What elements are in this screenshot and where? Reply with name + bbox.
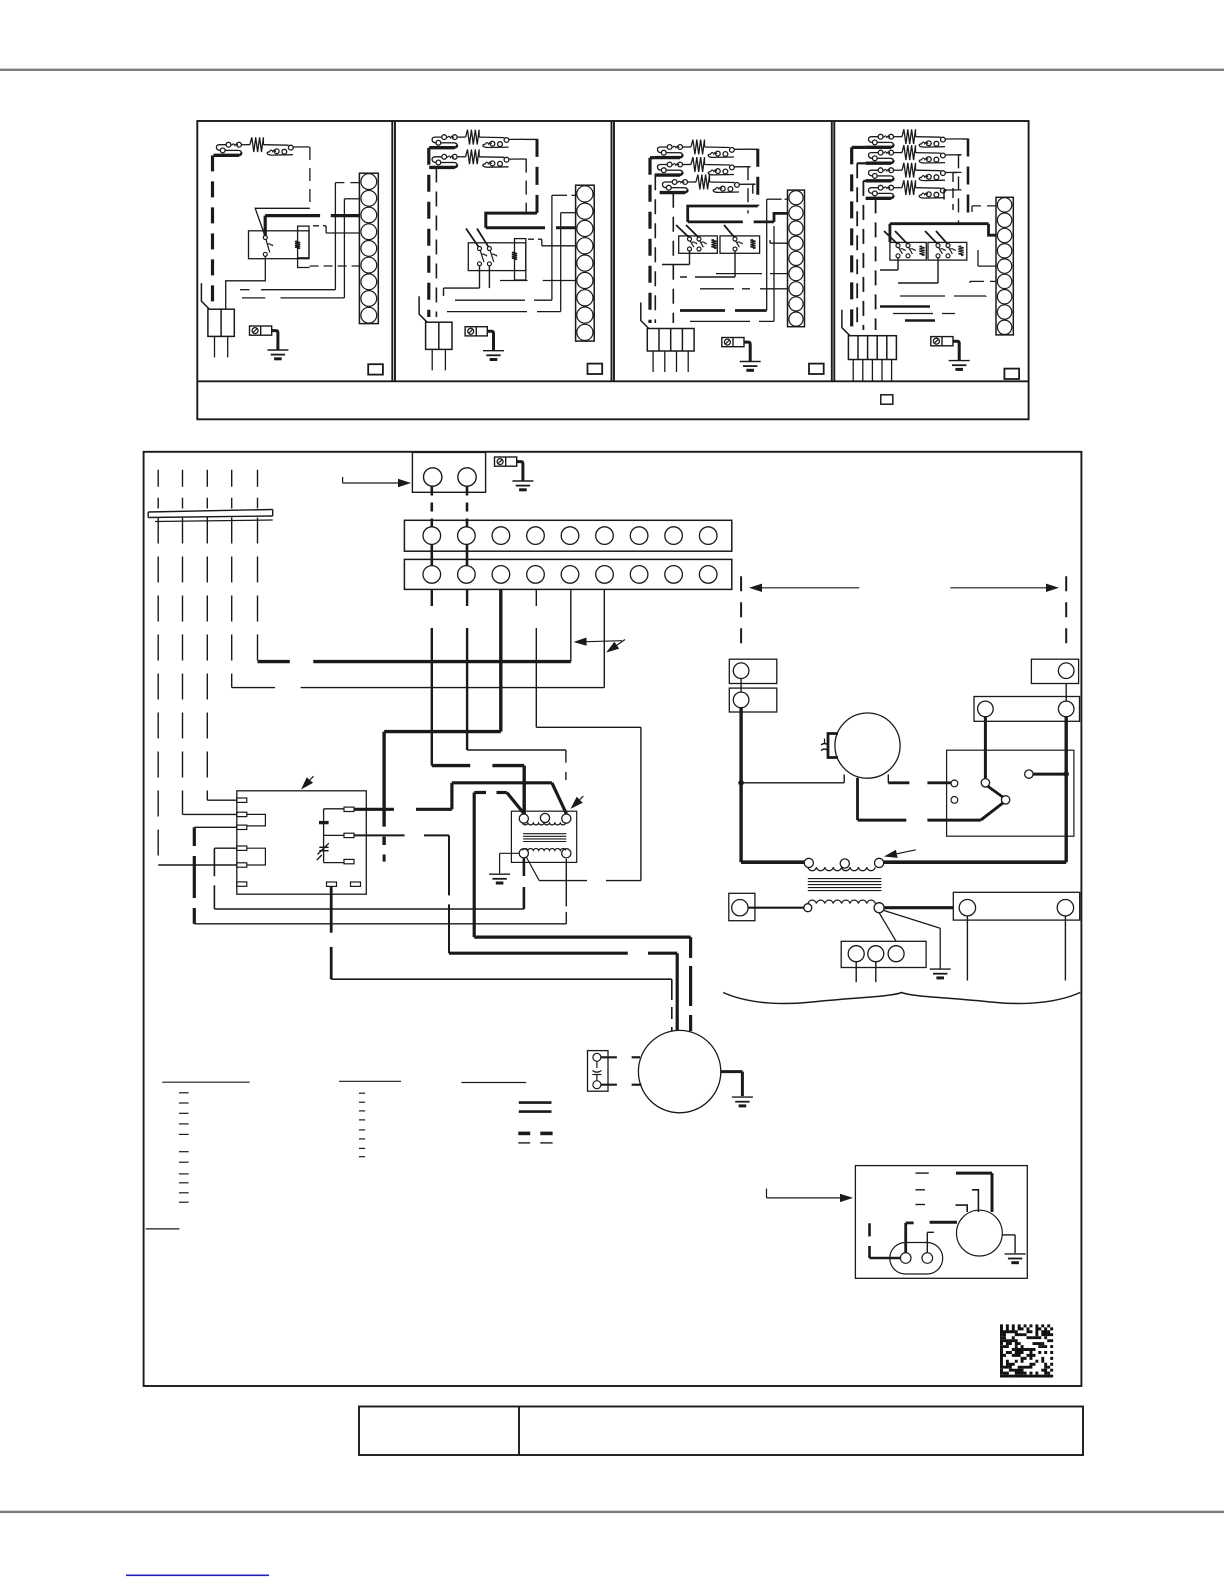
terminal row2 circle 6	[596, 566, 614, 584]
terminal row2 circle 4	[527, 566, 545, 584]
24V transformer box	[511, 811, 576, 862]
integrated control board	[237, 791, 366, 894]
panel3 relay feed diagonals	[676, 225, 689, 237]
terminal row1 circle 5	[561, 527, 579, 545]
panel4 heater element 3	[866, 179, 891, 182]
limit contacts left	[951, 780, 958, 787]
wavy break brace	[723, 993, 1080, 1004]
panel1 thick wire relay to terminal 3	[264, 216, 267, 236]
panel4 wire to terminal 6	[970, 280, 996, 282]
panel3 element leads right	[751, 148, 758, 150]
limit pivot and blade	[981, 779, 989, 787]
legend column 3 header line	[462, 1082, 527, 1084]
left field dashed line	[740, 576, 742, 653]
panel4 heater element 1	[866, 146, 891, 149]
terminal row1 circle 7	[630, 527, 648, 545]
limit right contact	[1025, 770, 1033, 778]
igniter bus d	[449, 952, 628, 955]
terminal row1 circle 9	[699, 527, 717, 545]
panel2 right drop wire 2	[525, 159, 527, 214]
field wire 3 to board pin1	[206, 518, 208, 801]
secondary taps slanted	[879, 913, 896, 942]
board bottom pin 1	[327, 882, 337, 886]
panel4 sequencer relay box A	[890, 242, 926, 260]
wire between left blocks	[740, 679, 742, 693]
main transformer laminations	[808, 878, 882, 880]
arrow to interlock box	[766, 1189, 768, 1198]
legend left margin line	[146, 1228, 180, 1230]
panels bottom strip line	[197, 380, 1028, 382]
panel3 heater element 3	[660, 191, 685, 194]
panel3 wire terminal 2 drop	[773, 226, 775, 321]
panel1 wire to terminal 1	[335, 182, 359, 184]
panel2 plug connector	[426, 322, 452, 349]
panel2 sequencer relay box	[468, 243, 526, 271]
board left pin 5	[237, 863, 247, 867]
panel2 polarized connector with ground	[465, 327, 487, 336]
junction dot	[739, 781, 743, 785]
panel3 terminal strip	[788, 190, 805, 327]
hot tap to igniter bus c	[474, 791, 486, 794]
wires below right block	[966, 916, 968, 981]
terminal row1 circle 2	[458, 527, 476, 545]
field wire 1 to board pin5	[157, 518, 159, 866]
arrow to main transformer	[897, 850, 916, 854]
terminal row1 circle 1	[423, 527, 441, 545]
legend line sample solid 2	[519, 1110, 552, 1113]
wire pin3 thick down to 24v hot bus	[194, 826, 237, 828]
panel2 relay feeds	[466, 229, 479, 247]
interlock dashes	[916, 1172, 929, 1174]
panel2 right drop wire 1	[536, 139, 539, 213]
interlock transformer circle	[957, 1210, 1003, 1256]
blower motor circle	[835, 713, 900, 778]
field wiring left arrow	[762, 587, 859, 589]
panel2 terminal strip	[576, 185, 595, 341]
board left pin 4	[237, 846, 247, 850]
wire board bottom pin to igniter thin bus	[330, 887, 333, 933]
data matrix code	[1000, 1324, 1053, 1377]
bottom rule	[0, 1511, 1224, 1513]
motor hot lead dashed	[887, 775, 889, 783]
board right pin 2	[344, 833, 354, 837]
interlock oval receptacle	[890, 1243, 943, 1275]
24V transformer secondary coil	[523, 849, 566, 851]
interlock thick feed	[930, 1221, 957, 1224]
limit switch box	[947, 750, 1074, 836]
wire board right pin2 to igniter bus	[354, 834, 405, 836]
main transformer primary terminals	[804, 858, 813, 867]
board right pin 3	[344, 859, 354, 863]
revision table	[359, 1407, 1083, 1456]
24v common bus to secondary left	[214, 908, 524, 910]
wire terminal c1 down to primary-left bus	[431, 589, 433, 606]
panel4 right drop wires	[967, 139, 970, 219]
panel2 relay lower wires down	[479, 266, 481, 288]
interlock step wires	[972, 1190, 979, 1212]
panel1 wire to terminal 4	[326, 232, 359, 234]
panel3 relay lower wires	[689, 251, 691, 265]
terminal row2 circle 3	[492, 566, 510, 584]
top rule	[0, 69, 1224, 71]
terminal row1 circle 3	[492, 527, 510, 545]
panel4 wire to terminal 1	[972, 205, 996, 207]
terminal row1 circle 6	[596, 527, 614, 545]
board jumper bracket 1	[247, 814, 266, 826]
panel divider 1	[391, 121, 393, 381]
flame sensor connector block	[588, 1051, 609, 1092]
blower door interlock box	[855, 1166, 1027, 1279]
thick L2 wire down	[1064, 717, 1067, 863]
arrow to control board	[310, 776, 314, 780]
board left pin 6	[237, 882, 247, 886]
disconnect block left 1	[729, 659, 777, 683]
legend column 1 header line	[162, 1081, 250, 1083]
panel1 sequencer relay box	[249, 231, 310, 259]
wire board right pin1 to primary right	[354, 808, 394, 811]
panel4 polarized connector with ground	[931, 337, 953, 346]
panel4 element leads right	[962, 138, 969, 140]
panel divider 3	[831, 121, 833, 381]
wire terminal c2 down to primary-right	[466, 589, 468, 606]
panel3 thick lower run	[680, 309, 725, 312]
field wires top dashed	[157, 470, 159, 509]
board left pin 1	[237, 798, 247, 802]
panel1 heater element HTR1	[214, 154, 239, 157]
legend column 1 dashes	[179, 1092, 189, 1094]
wire terminal c3 thick down to relay pin	[499, 589, 502, 731]
field wire 2 to board pin2	[182, 518, 184, 815]
interlock receptacle wires	[904, 1223, 907, 1253]
field wiring right arrow	[950, 587, 1046, 589]
flame sensor leads	[601, 1056, 617, 1058]
panel4 long horizontal runs	[900, 295, 986, 297]
polarized connector top with ground	[495, 457, 517, 466]
panel3 heater element 1	[655, 156, 680, 159]
panel4 left wires to plug	[852, 146, 866, 149]
fuse block right wide	[974, 697, 1080, 722]
igniter motor circle	[638, 1030, 720, 1112]
wires below 3-circle block	[855, 962, 857, 983]
panel4 thick bus to terminals	[890, 222, 989, 225]
board relay bus line	[323, 809, 325, 863]
main transformer secondary coil	[808, 900, 875, 903]
legend line sample dashed thick	[518, 1132, 530, 1136]
panel2 element2 lead to right drop	[525, 158, 526, 160]
panel3 sequencer relay box A	[679, 236, 718, 253]
panel4 wire to terminal 5	[978, 265, 996, 267]
terminal strip row 2	[404, 559, 731, 589]
24V transformer secondary terminals	[519, 849, 528, 858]
main transformer secondary terminals	[804, 904, 812, 912]
board one-shot mark	[319, 821, 329, 824]
panel2 wire to terminal 2	[561, 212, 576, 214]
disconnect block left 2	[729, 688, 777, 712]
panel1 relay coil box	[298, 226, 309, 258]
terminal strip row 1	[404, 520, 731, 551]
terminal row2 circle 1	[423, 566, 441, 584]
panel2 wire to terminal 4	[542, 245, 576, 247]
right wide block 2-circle	[953, 892, 1079, 920]
panel2 element1 lead to right drop	[525, 138, 537, 140]
24V transformer laminations	[523, 833, 566, 835]
legend column 2 dashes	[359, 1092, 365, 1094]
field wire 5 thick thermostat run	[257, 518, 259, 662]
disconnect block right top	[1031, 659, 1078, 683]
cable clamp	[148, 510, 273, 513]
panel divider 2	[611, 121, 613, 381]
heat kit panels outer box	[197, 121, 1028, 419]
panel3 wire to terminal 6	[716, 273, 762, 275]
panel4 heater element 2	[866, 161, 891, 164]
legend line sample dashed thin	[518, 1142, 530, 1144]
wire between right blocks	[1065, 684, 1067, 702]
panel4 id rect	[1004, 369, 1019, 379]
panel2 wire to terminal 1	[552, 194, 567, 196]
panel2 relay coil box	[515, 239, 526, 280]
panel3 left wires to plug	[650, 156, 655, 159]
wire terminal c6 down	[603, 589, 605, 687]
panel3 sequencer relay box B	[720, 236, 760, 253]
thick bus y765 to transformer primary left	[432, 764, 470, 767]
board bottom pin 2	[351, 882, 361, 886]
door interlock switch block	[412, 452, 485, 492]
panel1 wire to terminal 2	[344, 198, 359, 200]
main diagram box	[144, 452, 1082, 1386]
panel2 second left wire to plug	[435, 168, 437, 318]
panel3 wire to terminal 7	[700, 288, 750, 290]
panel1 plug connector	[208, 309, 234, 336]
terminal row2 circle 7	[630, 566, 648, 584]
legend column 2 header line	[339, 1080, 401, 1082]
24V secondary ground	[500, 852, 520, 854]
footer link underline	[126, 1575, 269, 1577]
arrow to door switch	[342, 477, 344, 483]
panel1 polarized connector with ground	[250, 326, 272, 335]
board gap mark	[319, 846, 328, 848]
interlock thick corner wire	[956, 1172, 992, 1175]
wire terminal c4 down to 24v common loop	[535, 589, 537, 606]
motor neutral lead	[843, 775, 845, 783]
panel3 plug connector	[647, 329, 694, 352]
igniter ground	[721, 1070, 743, 1073]
panel2 heater element 1	[429, 146, 454, 149]
panel2 id rect	[588, 364, 603, 374]
board jumper bracket 2	[247, 848, 266, 865]
small rect in bottom strip	[881, 395, 893, 404]
24v hot bus to secondary right	[194, 923, 566, 925]
blade lower bus thick	[981, 803, 1004, 821]
terminal row1 circle 4	[527, 527, 545, 545]
panel2 wire to terminal 6	[500, 280, 528, 282]
panel3 wire to terminal 4	[770, 242, 788, 244]
panel4 relay feed diagonals	[884, 231, 897, 244]
panel4 terminal strip	[996, 197, 1013, 335]
panel3 wire to terminal 1	[767, 198, 782, 200]
board left pin 3	[237, 825, 247, 829]
panel3 heater element 2	[655, 173, 680, 176]
main transformer primary coil	[808, 867, 875, 870]
panel2 lower horizontal runs	[444, 287, 480, 289]
interlock ground	[1002, 1234, 1015, 1236]
panel2 heater element 2	[429, 166, 454, 169]
motor run capacitor	[828, 734, 838, 758]
wire door switch 2 to terminals	[466, 487, 469, 528]
wire door switch 1 to terminals	[430, 487, 433, 528]
panel1 thick left wire to plug	[211, 155, 214, 304]
interlock left dashed feed	[868, 1223, 871, 1236]
legend line sample solid 1	[519, 1101, 552, 1104]
transformer tap ground	[930, 968, 951, 970]
panel1 wire to terminal 6	[310, 265, 360, 267]
panel4 plug connector	[848, 336, 896, 360]
thick L1 wire down	[739, 708, 742, 863]
terminal row2 circle 5	[561, 566, 579, 584]
panel1 id rect	[368, 364, 383, 374]
board right pin 1	[344, 807, 354, 811]
panel3 polarized connector with ground	[722, 338, 744, 347]
panel1 terminal strip	[359, 173, 378, 323]
24V transformer primary coil	[523, 823, 566, 825]
terminal row2 circle 9	[699, 566, 717, 584]
panel3 thick bus to terminal 2	[688, 206, 758, 222]
panel3 id rect	[809, 364, 824, 374]
terminal row2 circle 2	[458, 566, 476, 584]
panel4 thick lower runs	[880, 305, 930, 308]
wire terminal c5 down	[570, 589, 572, 661]
right field dashed line	[1065, 576, 1067, 653]
field wire 4 thermostat run	[231, 518, 233, 688]
motor lead to limit bus	[856, 778, 859, 820]
panel2 left thick wire to plug	[427, 148, 430, 317]
terminal row1 circle 8	[665, 527, 683, 545]
board left pin 2	[237, 812, 247, 816]
arrow to 24V transformer	[580, 796, 584, 800]
junction dot right	[1064, 772, 1068, 776]
panel2 thick jog to bus	[486, 213, 537, 228]
panel1 wire element to relay	[309, 147, 311, 208]
panel4 heater element 4	[866, 197, 891, 200]
wire pin4 down to 24v common bus	[214, 847, 236, 849]
terminal row2 circle 8	[665, 566, 683, 584]
panel4 sequencer relay box B	[928, 242, 967, 260]
main thick 120v bus bottom	[741, 860, 804, 864]
panel1 relay lower wire to plug	[226, 256, 266, 309]
block with circle left of transformer	[729, 893, 755, 920]
24V transformer primary terminals	[519, 814, 528, 823]
double arrow annotation	[587, 641, 622, 642]
panel3 right drop wires	[756, 149, 759, 206]
3-circle connector block	[841, 941, 926, 967]
panel2 thick bus to terminal 3	[486, 226, 545, 229]
panel4 relay lower wires	[897, 258, 899, 270]
wire from fuse block to pivot	[984, 717, 987, 779]
wire transformer secondary right to blocks	[884, 906, 953, 909]
